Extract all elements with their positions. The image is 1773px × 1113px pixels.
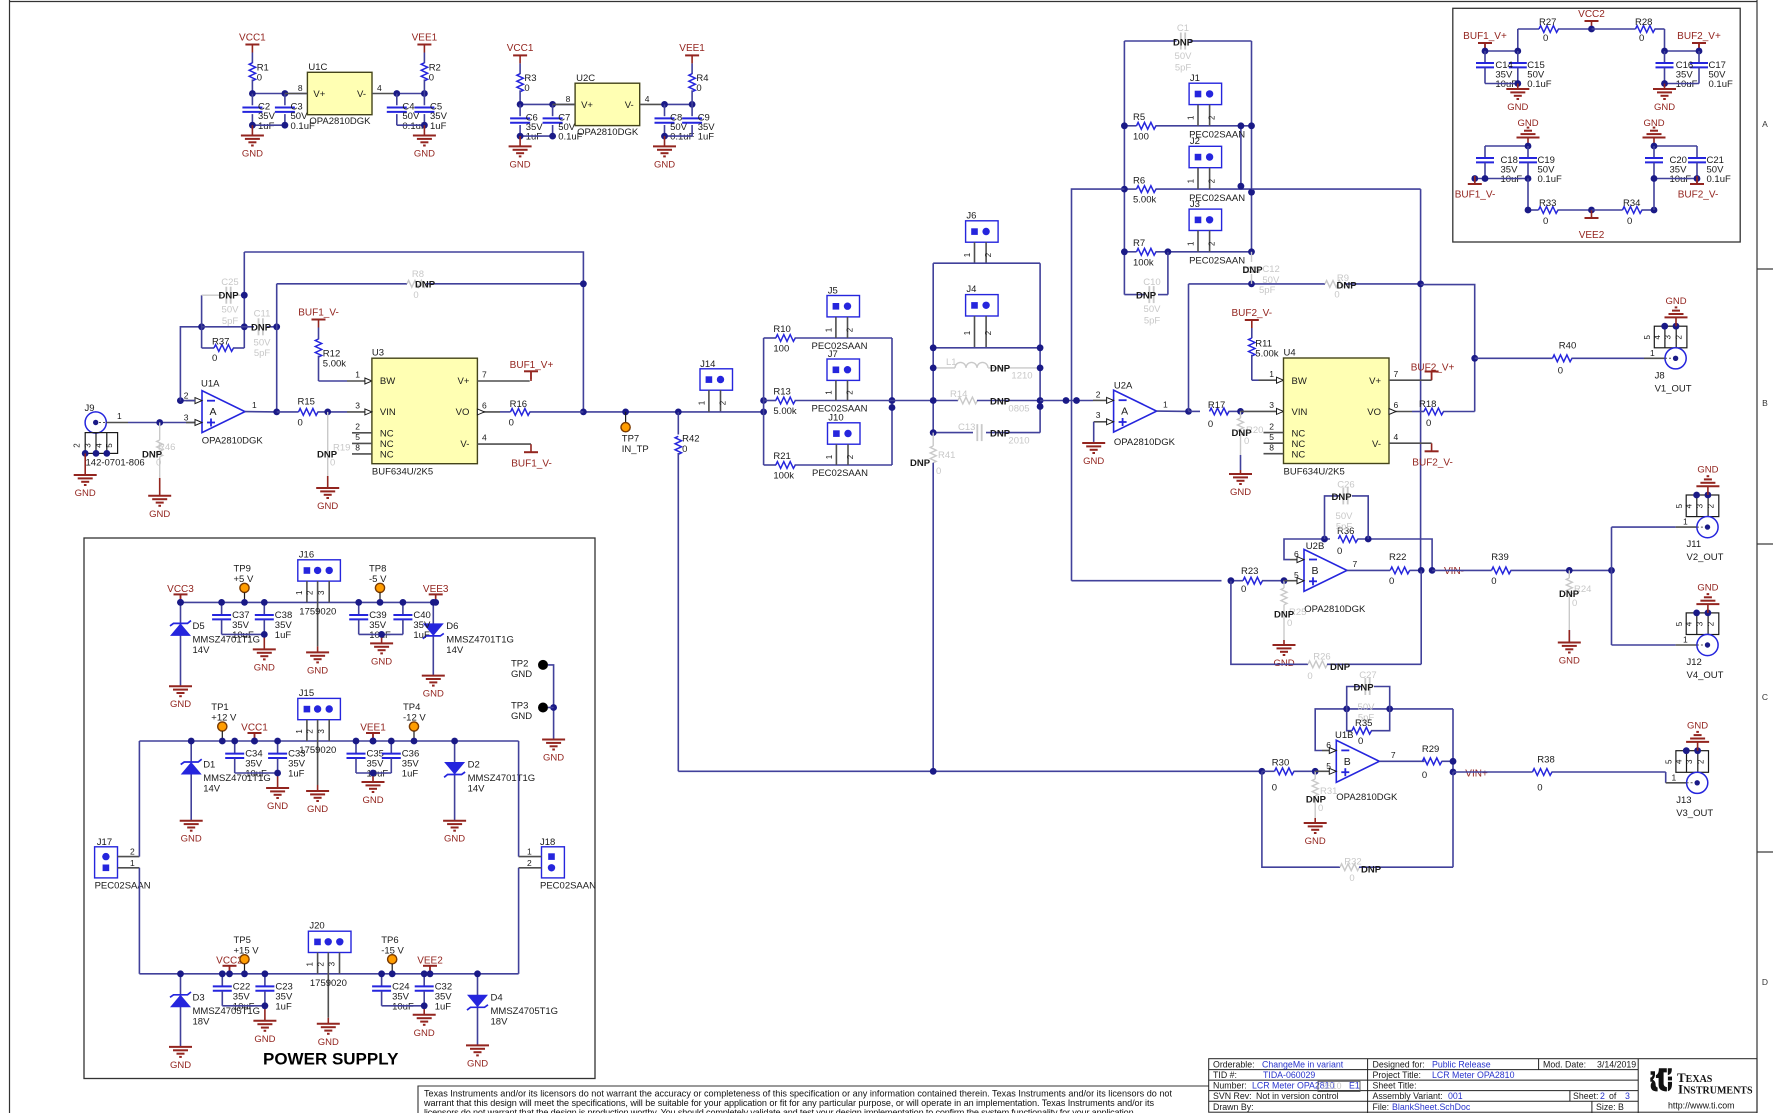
pin 1 (U2A out) xyxy=(1157,410,1189,412)
bypass network frame xyxy=(1453,8,1740,242)
svg-text:GND: GND xyxy=(181,834,202,845)
svg-text:J11: J11 xyxy=(1687,539,1702,550)
wire xyxy=(138,741,140,857)
svg-text:File:: File: xyxy=(1373,1102,1390,1112)
resistor R42 xyxy=(677,412,679,435)
junction xyxy=(930,344,1044,351)
svg-text:R34: R34 xyxy=(1623,198,1640,209)
wire xyxy=(892,400,933,402)
svg-text:GND: GND xyxy=(170,1060,191,1071)
svg-text:5: 5 xyxy=(1675,621,1684,626)
svg-text:R18: R18 xyxy=(1419,399,1436,410)
svg-text:0: 0 xyxy=(1318,803,1323,814)
pin 3 (U3 VIN) xyxy=(347,411,372,413)
svg-text:7: 7 xyxy=(1391,750,1396,760)
svg-text:5: 5 xyxy=(1675,503,1684,508)
resistor R29 xyxy=(1422,758,1441,765)
junction xyxy=(188,738,458,777)
capacitor C6 xyxy=(519,104,521,116)
capacitor C14 xyxy=(1484,51,1486,63)
svg-text:1: 1 xyxy=(825,327,834,332)
svg-text:4: 4 xyxy=(1674,759,1683,764)
wire xyxy=(933,347,1040,349)
header J20 1759020 xyxy=(308,931,351,952)
power flag VEE1 (U1C right) xyxy=(412,32,438,43)
svg-text:VIN: VIN xyxy=(1292,407,1308,418)
svg-text:licensors do not warrant that: licensors do not warrant that the design… xyxy=(424,1108,1136,1113)
wire: ladder left bus xyxy=(763,338,765,465)
junction xyxy=(930,768,1266,775)
junction xyxy=(550,704,557,711)
svg-text:14V: 14V xyxy=(468,784,486,795)
wire xyxy=(397,93,425,95)
capacitor C13 (DNP) xyxy=(933,432,973,434)
pin 5 (U3 NC) xyxy=(352,442,372,444)
ground xyxy=(251,125,253,135)
capacitor C33 xyxy=(277,741,279,753)
svg-text:2: 2 xyxy=(1208,115,1217,120)
power flag VCC2 xyxy=(216,955,243,966)
svg-text:1uF: 1uF xyxy=(275,630,292,641)
resistor R22 xyxy=(1390,567,1409,574)
wire xyxy=(1452,709,1454,772)
ground (D4) xyxy=(466,1045,489,1069)
svg-text:18V: 18V xyxy=(193,1016,211,1027)
svg-text:R8: R8 xyxy=(412,269,424,280)
ground (J9) xyxy=(84,453,86,475)
capacitor C37 xyxy=(221,602,223,614)
capacitor C18 xyxy=(1484,146,1486,158)
capacitor C35 xyxy=(355,741,357,753)
junction xyxy=(580,280,587,287)
wire xyxy=(180,400,195,402)
svg-text:R42: R42 xyxy=(682,434,699,445)
svg-text:2: 2 xyxy=(316,961,325,966)
svg-text:TP8: TP8 xyxy=(369,563,386,574)
svg-text:J16: J16 xyxy=(299,549,314,560)
svg-text:J20: J20 xyxy=(309,921,324,932)
svg-text:1759020: 1759020 xyxy=(299,606,336,617)
svg-text:R6: R6 xyxy=(1133,175,1145,186)
svg-text:1: 1 xyxy=(130,858,135,868)
header J3 PEC02SAAN xyxy=(1189,209,1222,230)
ground (U2A pin3) xyxy=(1093,442,1095,443)
svg-text:PEC02SAAN: PEC02SAAN xyxy=(540,881,596,892)
junction xyxy=(1651,207,1658,214)
resistor R38 xyxy=(1533,769,1552,776)
wire xyxy=(222,1005,265,1007)
power flag VCC1 (U1C left) xyxy=(239,32,266,43)
title block row: Number xyxy=(1213,1081,1247,1091)
svg-text:R38: R38 xyxy=(1537,754,1554,765)
junction xyxy=(1651,175,1701,182)
ground (left caps) xyxy=(263,634,265,649)
svg-text:GND: GND xyxy=(467,1058,488,1069)
pin 2 (J14) xyxy=(720,390,722,412)
wire xyxy=(1485,145,1528,147)
svg-text:GND: GND xyxy=(371,656,392,667)
svg-text:NC: NC xyxy=(1292,429,1306,440)
svg-text:142-0701-806: 142-0701-806 xyxy=(86,458,145,469)
svg-text:GND: GND xyxy=(254,662,275,673)
svg-text:B: B xyxy=(1762,398,1768,408)
pin 1 (J13) xyxy=(1666,782,1686,784)
wire: J6/J4 left bus xyxy=(932,263,934,432)
pin 1 (J9) xyxy=(106,422,128,424)
svg-text:4: 4 xyxy=(482,433,487,443)
svg-text:BW: BW xyxy=(1292,376,1307,387)
svg-text:VEE3: VEE3 xyxy=(423,584,449,595)
svg-text:0: 0 xyxy=(1244,436,1249,447)
junction xyxy=(273,323,280,330)
svg-text:2: 2 xyxy=(719,400,728,405)
wire xyxy=(252,93,307,95)
svg-text:VO: VO xyxy=(1367,407,1381,418)
ground (R31) xyxy=(1314,818,1316,823)
net label VIN- xyxy=(1444,566,1464,577)
op-amp supply box U2C xyxy=(575,73,640,138)
capacitor C4 xyxy=(396,94,398,106)
svg-text:1: 1 xyxy=(698,400,707,405)
svg-text:7: 7 xyxy=(1353,559,1358,569)
svg-text:NC: NC xyxy=(1292,450,1306,461)
svg-text:U1B: U1B xyxy=(1335,730,1353,741)
ground (R46) xyxy=(159,478,161,496)
svg-text:of: of xyxy=(1609,1091,1617,1101)
pin 1 (J1) xyxy=(1197,105,1199,126)
wire xyxy=(138,868,140,974)
resistor R2 xyxy=(423,53,425,64)
svg-text:0: 0 xyxy=(257,72,262,83)
pin 1 (J17) xyxy=(118,867,140,869)
wire xyxy=(710,411,764,413)
resistor R13 xyxy=(764,400,776,402)
junction xyxy=(1471,175,1531,182)
svg-text:TP1: TP1 xyxy=(211,702,228,713)
pin 2 (J18) xyxy=(519,867,542,869)
header J6 xyxy=(966,221,999,242)
svg-text:E1: E1 xyxy=(1349,1081,1360,1091)
pin 2 (J4) xyxy=(985,316,987,348)
pin 2 (J3) xyxy=(1209,231,1211,252)
svg-text:DNP: DNP xyxy=(1306,795,1327,806)
svg-text:2: 2 xyxy=(184,391,189,401)
capacitor C12 (DNP) xyxy=(1251,252,1253,262)
junction xyxy=(1237,408,1244,415)
capacitor C32 xyxy=(423,974,425,986)
svg-text:0: 0 xyxy=(524,83,529,94)
power flag BUF2_V+ xyxy=(1677,31,1721,42)
resistor R3 xyxy=(519,63,521,74)
pin 2 (J7) xyxy=(847,380,849,400)
svg-text:0: 0 xyxy=(1307,671,1312,682)
svg-text:DNP: DNP xyxy=(218,291,239,302)
svg-text:3: 3 xyxy=(317,729,326,734)
svg-text:U4: U4 xyxy=(1284,347,1296,358)
svg-text:GND: GND xyxy=(1305,836,1326,847)
svg-text:5: 5 xyxy=(1294,570,1299,580)
svg-text:GND: GND xyxy=(317,501,338,512)
wire: U1B feedback xyxy=(1315,709,1453,751)
capacitor C26 (DNP) xyxy=(1325,496,1340,539)
junction xyxy=(1482,48,1522,55)
capacitor C25 (DNP) xyxy=(202,294,222,296)
svg-text:Project Title:: Project Title: xyxy=(1373,1070,1421,1080)
svg-text:V1_OUT: V1_OUT xyxy=(1655,383,1692,394)
wire: V2/V4 branch riser xyxy=(1611,527,1613,645)
svg-text:GND: GND xyxy=(1697,465,1718,476)
svg-text:MMSZ4701T1G: MMSZ4701T1G xyxy=(446,634,514,645)
svg-text:BUF2_V+: BUF2_V+ xyxy=(1677,31,1721,42)
svg-text:VIN: VIN xyxy=(380,407,396,418)
wire: R23 input riser xyxy=(1071,401,1073,581)
svg-text:R40: R40 xyxy=(1559,340,1576,351)
svg-text:GND: GND xyxy=(75,488,96,499)
pin 1 (U1A out) xyxy=(245,411,277,413)
junction xyxy=(156,419,163,426)
svg-text:1: 1 xyxy=(295,729,304,734)
pin 8 (U4 NC) xyxy=(1264,453,1284,455)
svg-text:5: 5 xyxy=(1665,759,1674,764)
svg-text:8: 8 xyxy=(1269,442,1274,452)
svg-text:OPA2810DGK: OPA2810DGK xyxy=(1304,604,1366,615)
svg-text:14V: 14V xyxy=(203,784,221,795)
svg-text:Sheet:: Sheet: xyxy=(1573,1091,1598,1101)
junction xyxy=(273,409,280,416)
svg-text:POWER SUPPLY: POWER SUPPLY xyxy=(263,1050,399,1069)
svg-text:50V: 50V xyxy=(222,305,240,316)
svg-text:J12: J12 xyxy=(1687,657,1702,668)
pin 7 (U2B out) xyxy=(1347,569,1390,571)
wire xyxy=(1420,570,1422,664)
svg-text:2: 2 xyxy=(306,590,315,595)
svg-text:1210: 1210 xyxy=(1011,371,1032,382)
svg-text:J18: J18 xyxy=(540,837,555,848)
ground (J13) xyxy=(1697,742,1699,751)
resistor R27 xyxy=(1518,28,1539,30)
svg-text:OPA2810DGK: OPA2810DGK xyxy=(577,127,639,138)
svg-text:4: 4 xyxy=(1685,621,1694,626)
wire: ladder outer right vertical xyxy=(1251,41,1253,252)
svg-text:http://www.ti.com: http://www.ti.com xyxy=(1668,1101,1734,1111)
resistor R16 xyxy=(500,411,511,413)
capacitor C5 xyxy=(423,94,425,106)
resistor R15 xyxy=(299,409,319,416)
wire: supply rail xyxy=(139,740,518,742)
junction xyxy=(930,365,1044,372)
wire: bottom rail xyxy=(678,770,1262,772)
wire xyxy=(1040,400,1093,402)
svg-text:Size: B: Size: B xyxy=(1596,1102,1624,1112)
svg-text:5.00k: 5.00k xyxy=(323,359,346,370)
power flag BUF2_V- xyxy=(1696,179,1698,185)
svg-text:8: 8 xyxy=(355,443,360,453)
connector J11 V2_OUT xyxy=(1686,495,1719,538)
resistor R10 xyxy=(764,337,776,339)
svg-text:R17: R17 xyxy=(1208,400,1225,411)
resistor R33 xyxy=(1528,209,1539,211)
svg-text:R33: R33 xyxy=(1539,198,1556,209)
ground (C19 top) xyxy=(1517,118,1540,146)
power flag BUF2_V+ xyxy=(1411,363,1455,374)
pin 1 (J2) xyxy=(1197,168,1199,189)
svg-text:D2: D2 xyxy=(468,760,480,771)
pin 5 (U4 NC) xyxy=(1264,442,1284,444)
resistor R28 xyxy=(1592,28,1636,30)
svg-text:100: 100 xyxy=(1133,131,1149,142)
svg-text:0: 0 xyxy=(1537,782,1542,793)
wire xyxy=(1612,526,1676,528)
wire xyxy=(520,135,553,137)
capacitor C16 xyxy=(1664,51,1666,63)
power flag VEE2 xyxy=(417,955,443,966)
pin 7 (U4 V+) xyxy=(1389,379,1432,381)
svg-text:DNP: DNP xyxy=(1353,683,1374,694)
svg-text:GND: GND xyxy=(318,1037,339,1048)
wire xyxy=(665,135,693,137)
wire: R6 row to input riser xyxy=(1072,189,1125,400)
svg-text:10uF: 10uF xyxy=(392,1001,414,1012)
svg-text:1uF: 1uF xyxy=(413,630,430,641)
title block row: SVN Rev xyxy=(1213,1091,1252,1101)
svg-text:VCC2: VCC2 xyxy=(1578,9,1605,20)
pin 6 (U4 VO) xyxy=(1389,411,1412,413)
svg-text:VIN-: VIN- xyxy=(1444,566,1464,577)
junction xyxy=(760,397,767,415)
resistor R5 xyxy=(1124,125,1136,127)
title block table xyxy=(1209,1059,1757,1113)
zone letter B xyxy=(1762,398,1768,408)
svg-text:BUF2_V-: BUF2_V- xyxy=(1678,190,1719,201)
resistor R24 (DNP) xyxy=(1568,570,1570,578)
resistor R34 xyxy=(1592,209,1623,211)
svg-text:14V: 14V xyxy=(193,645,211,656)
junction xyxy=(1343,706,1393,713)
svg-text:D6: D6 xyxy=(446,621,458,632)
capacitor C8 xyxy=(664,104,666,116)
svg-text:Sheet Title:: Sheet Title: xyxy=(1373,1081,1417,1091)
svg-text:50V: 50V xyxy=(1175,51,1193,62)
Texas Instruments wordmark xyxy=(1677,1070,1753,1097)
wire xyxy=(520,103,575,105)
svg-text:10uF: 10uF xyxy=(1501,174,1523,185)
pin 2 (J15) xyxy=(317,720,319,785)
svg-text:GND: GND xyxy=(511,669,532,680)
inductor L1 (DNP) xyxy=(933,367,955,369)
wire xyxy=(1665,83,1700,85)
svg-text:1uF: 1uF xyxy=(698,132,715,143)
svg-text:1: 1 xyxy=(1650,348,1655,358)
junction xyxy=(517,101,556,108)
svg-text:0: 0 xyxy=(1558,366,1563,377)
svg-text:5pF: 5pF xyxy=(1175,63,1192,74)
svg-text:D: D xyxy=(1762,977,1768,987)
svg-text:GND: GND xyxy=(414,149,435,160)
resistor R40 xyxy=(1475,357,1553,359)
svg-text:0: 0 xyxy=(936,466,941,477)
wire xyxy=(1452,772,1454,867)
svg-text:0: 0 xyxy=(156,458,161,469)
svg-text:5: 5 xyxy=(105,443,114,448)
capacitor C23 xyxy=(264,974,266,986)
svg-text:GND: GND xyxy=(1507,102,1528,113)
test point TP8 xyxy=(369,563,386,574)
resistor R26 (DNP) xyxy=(1231,581,1308,665)
junction xyxy=(1566,567,1615,574)
svg-text:7: 7 xyxy=(1394,369,1399,379)
svg-text:BUF1_V+: BUF1_V+ xyxy=(510,360,554,371)
svg-text:J10: J10 xyxy=(828,413,843,424)
svg-text:BUF1_V-: BUF1_V- xyxy=(298,307,339,318)
svg-text:R26: R26 xyxy=(1313,652,1330,663)
ground (J16) xyxy=(317,646,319,652)
ground (C20 top) xyxy=(1643,118,1666,146)
svg-text:R30: R30 xyxy=(1272,758,1289,769)
wire xyxy=(359,633,403,635)
capacitor C38 xyxy=(263,602,265,614)
connector J12 V4_OUT xyxy=(1686,613,1719,656)
resistor R12 xyxy=(318,328,320,340)
test point TP6 xyxy=(381,935,398,946)
wire xyxy=(382,1005,425,1007)
ground (left caps) xyxy=(277,773,279,788)
svg-text:2: 2 xyxy=(1675,335,1684,340)
svg-text:5pF: 5pF xyxy=(1336,522,1353,533)
wire xyxy=(1072,580,1222,582)
svg-text:50V: 50V xyxy=(1358,702,1376,713)
ground xyxy=(1664,84,1666,90)
svg-text:GND: GND xyxy=(414,1028,435,1039)
resistor R30 xyxy=(1262,770,1275,772)
test point TP4 xyxy=(403,702,420,713)
pin 1 (J16) xyxy=(306,581,308,602)
header J15 1759020 xyxy=(298,698,341,719)
junction xyxy=(1418,567,1436,574)
resistor R8 (DNP) xyxy=(276,284,278,412)
header J10 PEC02SAAN xyxy=(828,423,861,444)
svg-text:Mod. Date:: Mod. Date: xyxy=(1543,1059,1586,1069)
capacitor C36 xyxy=(390,741,392,753)
sheet border top xyxy=(10,1,1758,3)
svg-text:V-: V- xyxy=(1372,439,1381,450)
svg-text:TP5: TP5 xyxy=(234,935,251,946)
pin 2 (U3 NC) xyxy=(352,432,372,434)
pin 2 (J10) xyxy=(847,444,849,465)
capacitor C27 (DNP) xyxy=(1347,687,1361,709)
svg-text:3: 3 xyxy=(355,401,360,411)
power flag BUF1_V- (U3) xyxy=(524,444,538,452)
test point TP3 xyxy=(511,701,528,712)
svg-text:DNP: DNP xyxy=(1242,265,1263,276)
svg-text:5pF: 5pF xyxy=(1259,285,1276,296)
pin 5 (U1B) xyxy=(1315,770,1329,772)
svg-text:C27: C27 xyxy=(1359,670,1376,681)
ground (J12) xyxy=(1707,604,1709,613)
connector J17 PEC02SAAN xyxy=(95,847,118,878)
disclaimer text xyxy=(423,1089,1172,1113)
svg-text:C13: C13 xyxy=(958,422,975,433)
wire: supply rail xyxy=(181,601,434,603)
svg-text:2: 2 xyxy=(130,846,135,856)
svg-text:R22: R22 xyxy=(1389,552,1406,563)
pin 3 (J16) xyxy=(328,581,330,602)
svg-text:2: 2 xyxy=(984,330,993,335)
svg-text:0: 0 xyxy=(429,72,434,83)
svg-text:GND: GND xyxy=(1687,720,1708,731)
svg-text:3: 3 xyxy=(1096,410,1101,420)
ground (J20) xyxy=(327,1018,329,1024)
svg-text:GND: GND xyxy=(543,753,564,764)
